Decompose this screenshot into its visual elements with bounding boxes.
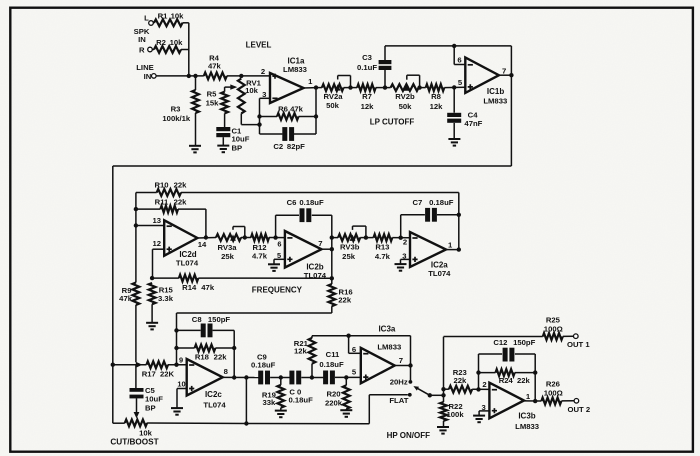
svg-text:10k: 10k xyxy=(171,11,185,20)
svg-text:50k: 50k xyxy=(326,101,340,110)
svg-text:R14: R14 xyxy=(182,283,197,292)
svg-text:R26: R26 xyxy=(546,380,560,389)
svg-text:220k: 220k xyxy=(325,399,343,408)
svg-text:22K: 22K xyxy=(160,370,175,379)
svg-text:47nF: 47nF xyxy=(464,119,482,128)
svg-text:R: R xyxy=(139,45,145,54)
svg-text:C3: C3 xyxy=(362,53,372,62)
svg-text:0.18uF: 0.18uF xyxy=(299,198,324,207)
svg-text:BP: BP xyxy=(232,143,243,152)
svg-text:IN: IN xyxy=(144,72,152,81)
svg-text:150pF: 150pF xyxy=(208,315,231,324)
svg-text:6: 6 xyxy=(457,55,461,64)
svg-text:IN: IN xyxy=(138,35,146,44)
svg-text:2: 2 xyxy=(261,67,265,76)
svg-text:RV2b: RV2b xyxy=(395,92,415,101)
svg-text:1: 1 xyxy=(448,240,453,249)
svg-text:R1: R1 xyxy=(158,11,169,20)
svg-text:7: 7 xyxy=(318,239,322,248)
svg-text:10: 10 xyxy=(177,380,185,389)
svg-text:TL074: TL074 xyxy=(176,259,199,268)
svg-text:5: 5 xyxy=(458,78,463,87)
svg-text:R5: R5 xyxy=(207,90,218,99)
svg-text:50k: 50k xyxy=(399,102,413,111)
svg-text:L: L xyxy=(144,13,149,22)
svg-text:100k/1k: 100k/1k xyxy=(162,114,191,123)
svg-text:2: 2 xyxy=(403,238,407,247)
svg-text:R7: R7 xyxy=(362,92,372,101)
svg-text:10uF: 10uF xyxy=(232,134,250,143)
svg-text:R8: R8 xyxy=(431,92,442,101)
svg-text:0.18uF: 0.18uF xyxy=(288,396,313,405)
svg-text:R18: R18 xyxy=(195,353,210,362)
svg-text:22k: 22k xyxy=(174,180,188,189)
svg-text:IC3b: IC3b xyxy=(518,412,535,421)
svg-text:12: 12 xyxy=(153,239,162,248)
svg-text:R20: R20 xyxy=(326,389,340,398)
svg-text:0.18uF: 0.18uF xyxy=(429,198,454,207)
svg-text:47k: 47k xyxy=(201,283,215,292)
svg-text:12k: 12k xyxy=(294,347,308,356)
svg-text:R13: R13 xyxy=(375,242,389,251)
svg-text:3.3k: 3.3k xyxy=(158,294,174,303)
svg-text:IC1b: IC1b xyxy=(487,87,504,96)
svg-text:OUT 2: OUT 2 xyxy=(567,405,590,414)
svg-text:LINE: LINE xyxy=(136,63,154,72)
svg-text:CUT/BOOST: CUT/BOOST xyxy=(110,437,158,446)
svg-text:10k: 10k xyxy=(245,86,259,95)
svg-text:47k: 47k xyxy=(290,105,304,114)
svg-text:100Ω: 100Ω xyxy=(544,388,563,397)
svg-text:R3: R3 xyxy=(171,105,181,114)
svg-text:C8: C8 xyxy=(192,315,203,324)
svg-text:1: 1 xyxy=(526,392,531,401)
svg-text:9: 9 xyxy=(179,356,183,365)
svg-text:LM833: LM833 xyxy=(283,65,307,74)
svg-text:C6: C6 xyxy=(287,198,297,207)
svg-text:IC2c: IC2c xyxy=(205,390,222,399)
svg-text:IC1a: IC1a xyxy=(288,56,305,65)
svg-text:10k: 10k xyxy=(170,38,184,47)
svg-text:22k: 22k xyxy=(174,198,188,207)
svg-text:12k: 12k xyxy=(430,102,444,111)
svg-text:C2: C2 xyxy=(273,142,283,151)
svg-text:LM833: LM833 xyxy=(483,97,507,106)
svg-text:100Ω: 100Ω xyxy=(544,325,563,334)
svg-text:RV3b: RV3b xyxy=(340,242,360,251)
svg-text:4.7k: 4.7k xyxy=(252,251,268,260)
svg-text:C12: C12 xyxy=(493,338,507,347)
svg-text:8: 8 xyxy=(224,367,229,376)
svg-text:12k: 12k xyxy=(361,102,375,111)
svg-text:20Hz: 20Hz xyxy=(390,377,408,386)
svg-text:TL074: TL074 xyxy=(203,401,226,410)
svg-text:R24: R24 xyxy=(499,376,514,385)
svg-text:150pF: 150pF xyxy=(513,338,536,347)
svg-text:10uF: 10uF xyxy=(145,395,163,404)
svg-text:LM833: LM833 xyxy=(515,422,539,431)
svg-text:4.7k: 4.7k xyxy=(375,252,391,261)
svg-text:2: 2 xyxy=(482,380,486,389)
svg-text:13: 13 xyxy=(153,216,162,225)
svg-text:100k: 100k xyxy=(447,410,465,419)
svg-text:R10: R10 xyxy=(154,180,168,189)
svg-text:R6: R6 xyxy=(278,105,288,114)
svg-text:0.1uF: 0.1uF xyxy=(357,63,377,72)
svg-text:6: 6 xyxy=(277,240,281,249)
svg-text:5: 5 xyxy=(352,368,357,377)
svg-text:RV3a: RV3a xyxy=(217,243,237,252)
svg-text:R11: R11 xyxy=(155,198,169,207)
svg-text:TL074: TL074 xyxy=(428,269,451,278)
svg-text:HP ON/OFF: HP ON/OFF xyxy=(387,431,431,440)
svg-text:22k: 22k xyxy=(338,296,352,305)
svg-text:33k: 33k xyxy=(262,398,276,407)
svg-text:7: 7 xyxy=(502,67,506,76)
svg-text:C7: C7 xyxy=(412,198,422,207)
svg-text:22k: 22k xyxy=(214,353,228,362)
svg-text:LEVEL: LEVEL xyxy=(246,40,272,49)
svg-text:R17: R17 xyxy=(142,370,156,379)
svg-text:82pF: 82pF xyxy=(287,142,305,151)
svg-text:6: 6 xyxy=(352,345,356,354)
svg-text:22k: 22k xyxy=(517,376,531,385)
svg-text:25k: 25k xyxy=(221,252,235,261)
svg-text:FLAT: FLAT xyxy=(389,396,408,405)
svg-text:7: 7 xyxy=(399,356,403,365)
svg-text:47k: 47k xyxy=(119,294,133,303)
svg-text:1: 1 xyxy=(308,77,313,86)
svg-text:15k: 15k xyxy=(206,98,220,107)
svg-text:0.18uF: 0.18uF xyxy=(251,361,276,370)
svg-text:LM833: LM833 xyxy=(377,342,401,351)
svg-text:RV2a: RV2a xyxy=(323,92,343,101)
svg-text:R2: R2 xyxy=(156,38,166,47)
svg-text:LP CUTOFF: LP CUTOFF xyxy=(370,117,415,126)
svg-text:22k: 22k xyxy=(453,376,467,385)
svg-text:OUT 1: OUT 1 xyxy=(567,340,590,349)
svg-text:R25: R25 xyxy=(546,316,561,325)
svg-text:C5: C5 xyxy=(145,386,156,395)
svg-text:FREQUENCY: FREQUENCY xyxy=(252,285,303,294)
svg-text:BP: BP xyxy=(145,403,156,412)
svg-text:0.18uF: 0.18uF xyxy=(319,360,344,369)
svg-text:10k: 10k xyxy=(139,428,153,437)
svg-text:25k: 25k xyxy=(342,252,356,261)
svg-text:47k: 47k xyxy=(208,61,222,70)
svg-text:C11: C11 xyxy=(326,350,340,359)
svg-text:14: 14 xyxy=(198,240,207,249)
svg-text:IC3a: IC3a xyxy=(378,325,395,334)
